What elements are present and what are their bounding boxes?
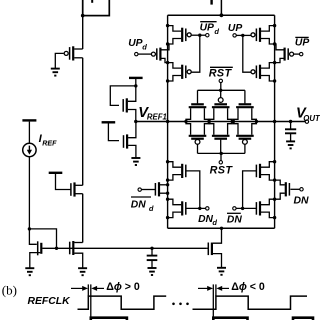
svg-text:OUT: OUT xyxy=(303,114,320,123)
pmos M9 (gate UPd-bar, lower) xyxy=(166,61,169,64)
ground for C1 xyxy=(148,267,157,269)
ground for M20 xyxy=(217,267,226,269)
bias block (top box, cut off at top edge) xyxy=(83,0,110,16)
wire: M1 drain lead xyxy=(74,48,83,50)
supply stub for M2 gate xyxy=(49,172,63,174)
wire: supply stub to diode node xyxy=(135,79,137,86)
wire: M16 bottom lead xyxy=(160,192,168,194)
ellipsis dots xyxy=(172,303,175,306)
label UPd-bar xyxy=(200,21,216,23)
junction left rail mid xyxy=(166,120,169,123)
nmos M18 (gate DN-bar, lower) xyxy=(273,198,276,201)
wire: supply stub to M2 gate xyxy=(56,174,71,190)
wire: M10 gate to UPd terminal xyxy=(138,53,151,55)
feedback pulse waveform right second (thick) xyxy=(293,318,313,320)
junction DN-bar xyxy=(241,207,244,210)
terminal UP-bar xyxy=(300,52,303,55)
REFCLK waveform left xyxy=(78,296,167,309)
arrow left group xyxy=(71,287,83,289)
output node wire VREF1 to VOUT xyxy=(136,121,305,123)
junction bottom rail tail xyxy=(220,227,223,230)
wire: M10 top lead xyxy=(161,44,169,50)
wire: M1 source lead xyxy=(74,57,83,59)
wire: M1 gate to ground xyxy=(55,53,63,68)
wire: rstbar terminal stem xyxy=(220,83,222,91)
wire: M8 gate to UPd-bar terminal xyxy=(192,34,206,36)
wire: M19 gate to DN terminal xyxy=(290,188,300,190)
bottom rail wire xyxy=(168,227,275,229)
wire: M3 source lead to ground xyxy=(74,253,82,268)
terminal DN xyxy=(300,188,303,191)
wire: rst terminal stem xyxy=(220,153,222,160)
wire: M17 gate feed xyxy=(243,171,257,209)
current source I_REF xyxy=(23,143,36,156)
wire: M16 gate to DNd-bar terminal xyxy=(141,189,155,191)
nmos M6 (diode-connected) xyxy=(126,98,128,112)
junction for bias decoupling cap xyxy=(150,247,153,250)
wire: supply stub to M7 gate xyxy=(108,124,119,141)
tick refclk edge right group xyxy=(215,284,217,296)
long tick signal edge right group xyxy=(212,284,214,316)
wire: M13 top lead xyxy=(275,44,284,50)
junction top rail supply xyxy=(220,13,224,17)
nmos M4 (mirror diode) xyxy=(40,243,42,254)
wire: M11 gate to UP terminal xyxy=(236,34,251,36)
feedback pulse waveform left (thick) xyxy=(91,318,127,320)
nmos M16 (gate DNd-bar) xyxy=(158,182,160,196)
label DNd-bar xyxy=(131,196,151,198)
wire: M7 source to ground xyxy=(128,145,136,158)
svg-text:UP: UP xyxy=(200,23,214,34)
svg-text:(b): (b) xyxy=(2,283,17,298)
tick refclk edge left group xyxy=(87,284,89,296)
terminal RST-bar xyxy=(219,79,222,82)
ground for C2 xyxy=(286,140,295,142)
pmos M8 (gate UPd-bar, upper) xyxy=(166,24,169,27)
wire: UP net vertical xyxy=(243,35,251,72)
junction UP xyxy=(241,34,244,37)
nmos M3 (mirror output) xyxy=(72,241,74,255)
wire: M20 drain lead to bottom rail xyxy=(213,228,222,243)
capacitor C2 (output) xyxy=(285,128,296,130)
wire: M15 gate to DNd terminal xyxy=(186,207,206,209)
wire: C2 to ground xyxy=(290,134,292,142)
node A junction: box output to bias column xyxy=(81,14,85,18)
wire: bias column M1 to M2 xyxy=(82,58,84,186)
junction rst xyxy=(220,152,223,155)
svg-text:DN: DN xyxy=(198,214,213,225)
svg-text:RST: RST xyxy=(209,67,233,79)
wire: bias column M2 to M3 xyxy=(82,194,84,243)
svg-text:REFCLK: REFCLK xyxy=(28,296,72,307)
svg-text:RST: RST xyxy=(210,164,234,176)
label UP-bar xyxy=(295,36,308,38)
svg-text:DN: DN xyxy=(227,215,242,226)
long tick signal edge left group xyxy=(90,284,92,316)
supply stub for M7 gate xyxy=(102,121,116,123)
svg-text:d: d xyxy=(214,27,219,36)
rstbar distribution wire xyxy=(198,89,245,91)
nmos M14 (gate DNd, upper) xyxy=(166,160,169,163)
terminal UPd xyxy=(135,52,138,55)
terminal UPd-bar xyxy=(206,34,209,37)
supply stub for VREF branch xyxy=(129,77,143,79)
wire: M3 drain lead xyxy=(74,242,82,244)
wire: UPd-bar net vertical xyxy=(192,35,200,72)
REFCLK waveform right xyxy=(193,296,308,309)
wire: M2 drain lead xyxy=(76,184,83,186)
wire: M13 gate to UP-bar terminal xyxy=(294,53,300,55)
wire: M19 top lead xyxy=(275,180,285,185)
arrow left of right group xyxy=(198,287,208,289)
svg-text:UP: UP xyxy=(228,23,242,34)
ground for M7 xyxy=(131,157,140,159)
tick above supply lead (cut off) xyxy=(210,0,212,5)
pmos M10 (gate UPd) xyxy=(159,48,161,61)
arrowhead right of ticks right group xyxy=(216,286,222,291)
label RST-bar xyxy=(210,66,233,68)
svg-text:UP: UP xyxy=(128,38,142,49)
wire: box to M1 drain xyxy=(82,16,84,49)
wire: VOUT cap stem xyxy=(290,122,292,130)
junction DNd xyxy=(198,207,201,210)
nmos M7 (VREF divider lower) xyxy=(126,134,128,148)
nmos M2 (cascode, gate to supply stub) xyxy=(73,182,75,196)
pmos M1 (gate grounded) xyxy=(72,46,74,60)
terminal VOUT xyxy=(305,120,308,123)
wire: M16 top lead xyxy=(160,184,168,186)
tick inside bias block xyxy=(91,0,93,3)
reset switch pair at x=220.7 xyxy=(214,103,227,105)
wire: supply stub to current source xyxy=(28,122,30,144)
reset switch pair at x=197.5 xyxy=(191,103,204,105)
junction UPd-bar xyxy=(198,34,201,37)
nmos M15 (gate DNd, lower) xyxy=(166,198,169,201)
svg-text:d: d xyxy=(149,204,154,213)
wire: M4 source to ground xyxy=(30,253,41,269)
junction on bias gate line xyxy=(55,247,58,250)
ground for M1 gate xyxy=(51,68,60,70)
label DN-bar xyxy=(227,212,241,214)
node VREF1 junction xyxy=(134,120,137,123)
terminal RST xyxy=(219,161,222,164)
svg-text:DN: DN xyxy=(131,199,146,210)
junction VOUT cap xyxy=(289,120,292,123)
svg-text:REF: REF xyxy=(42,138,57,147)
ground for M3 xyxy=(78,267,87,269)
junction right rail mid xyxy=(273,120,276,123)
nmos M17 (gate DN-bar, upper) xyxy=(273,160,276,163)
reset switch pair at x=244.9 xyxy=(239,103,252,105)
top rail wire xyxy=(168,14,275,16)
svg-text:UP: UP xyxy=(295,38,309,49)
wire: M2 source lead xyxy=(76,193,83,195)
pmos M11 (gate UP, upper) xyxy=(273,24,276,27)
wire: M6 drain lead xyxy=(128,86,136,101)
svg-text:DN: DN xyxy=(294,195,310,206)
terminal DNd-bar xyxy=(138,188,141,191)
wire: bias gate line to tail transistor xyxy=(42,247,207,249)
wire: supply lead from top edge to top rail xyxy=(220,0,222,15)
svg-text:d: d xyxy=(142,42,147,51)
ground for M4 xyxy=(25,267,34,269)
nmos M19 (gate DN) xyxy=(285,182,287,196)
capacitor C1 (bias decoupling) xyxy=(151,248,153,255)
svg-text:Δϕ > 0: Δϕ > 0 xyxy=(106,281,140,293)
svg-text:d: d xyxy=(212,218,217,227)
wire: M19 bottom lead xyxy=(275,193,285,199)
terminal DNd xyxy=(206,207,209,210)
left rail wire xyxy=(167,15,169,228)
node B junction: IREF to M4 xyxy=(28,227,31,230)
node C junction: diode connection xyxy=(134,84,137,87)
wire: M14 gate feed xyxy=(186,171,200,209)
wire: IREF node jog to M4 drain line xyxy=(29,229,56,248)
wire: M6 source to VREF node xyxy=(128,110,136,122)
wire: M20 source to ground xyxy=(213,254,222,268)
junction rstbar xyxy=(219,89,222,92)
nmos M20 (tail, bias gate) xyxy=(211,243,213,256)
svg-text:Δϕ < 0: Δϕ < 0 xyxy=(231,281,265,293)
wire: M7 drain lead xyxy=(128,123,136,138)
wire: current source to mirror node xyxy=(28,157,30,229)
svg-text:REF1: REF1 xyxy=(147,112,167,121)
right rail wire xyxy=(274,15,276,228)
wire: M10 bottom lead xyxy=(161,58,167,62)
rst distribution wire xyxy=(198,152,245,154)
wire: diode loop to M6 gate xyxy=(110,86,136,106)
wire: M20 gate from bias line xyxy=(207,247,209,249)
terminal UP xyxy=(233,34,236,37)
wire: M13 bottom lead xyxy=(275,58,284,62)
terminal DN-bar xyxy=(233,207,236,210)
feedback pulse waveform right (thick) xyxy=(213,318,247,320)
wire: M18 gate to DN-bar terminal xyxy=(236,207,256,209)
supply stub above current source xyxy=(22,119,36,121)
pmos M12 (gate UP, lower) xyxy=(273,61,276,64)
arrowhead right of ticks left group xyxy=(91,286,97,291)
wire: M4 gate feed xyxy=(29,229,36,244)
pmos M13 (gate UP-bar) xyxy=(284,48,286,61)
